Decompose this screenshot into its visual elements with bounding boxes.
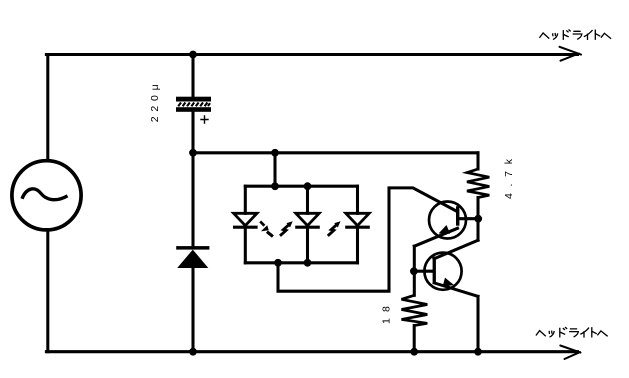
node dot LED box bottom left [274, 259, 282, 267]
light arrow bolt left (pointing lower-left) [260, 221, 273, 236]
node dot LED box top left [271, 182, 279, 190]
wire 4.7k branch corner [476, 153, 479, 169]
node dot mid rail / LED branch [271, 149, 279, 157]
wire LED box bottom [245, 261, 357, 264]
wire LED box top [245, 185, 357, 188]
resistor R1 4.7k [467, 169, 489, 198]
wire LED branch drop [273, 153, 276, 186]
node dot bottom rail / 18 ohm [410, 348, 418, 356]
wire 18 ohm resistor to bottom rail [413, 326, 416, 352]
wire left vertical lower [46, 230, 49, 352]
wire Q1 emitter diagonal [414, 228, 457, 246]
node dot LED box bottom middle [304, 259, 312, 267]
wire LED box right vertical [356, 186, 359, 263]
wire diode to bottom rail [191, 268, 194, 352]
light arrow bolt middle (pointing upper-right) [280, 221, 293, 236]
transistor Q1 [429, 202, 466, 239]
LED D3 [295, 213, 320, 227]
wire left vertical upper [46, 55, 49, 162]
node dot mid rail / capacitor [189, 149, 197, 157]
label headlight bottom (katakana) [536, 328, 607, 338]
label headlight top (katakana) [540, 30, 611, 40]
node dot bottom rail / diode [189, 348, 197, 356]
top output arrowhead [560, 47, 582, 61]
wire capacitor branch upper [191, 55, 194, 97]
wire 4.7k resistor to Q1 base node [476, 198, 479, 241]
transistor Q2 [424, 253, 461, 290]
light arrow bolt right (pointing upper-right) [328, 221, 341, 236]
wire Q2 emitter diagonal [434, 283, 478, 297]
node dot LED box top middle [304, 182, 312, 190]
wire bottom rail [46, 350, 577, 353]
wire Q1 base lead [459, 217, 479, 220]
node dot Q1 base [474, 215, 482, 223]
node dot top rail / capacitor [189, 51, 197, 59]
wire Q2 collector diagonal [434, 240, 478, 259]
resistor R2 18 [402, 295, 428, 325]
Q2 emitter arrow [443, 278, 454, 287]
wire Q1 emitter to Q2 base vertical [413, 246, 416, 295]
capacitor C1 220u [176, 97, 211, 124]
bottom output arrowhead [560, 346, 580, 360]
node dot bottom rail / Q2 emitter [474, 348, 482, 356]
capacitor plus mark [200, 115, 208, 124]
LED D4 [345, 213, 370, 227]
wire capacitor to diode [191, 112, 194, 246]
wire middle horizontal rail [193, 151, 478, 154]
wire Q2 emitter vertical to bottom rail [476, 296, 479, 351]
wire LED box middle vertical [306, 186, 309, 263]
node dot Q2 base [410, 267, 418, 275]
AC source V1 [12, 161, 81, 230]
wire Q2 base lead [414, 270, 432, 273]
Q1 emitter arrow [439, 225, 451, 234]
wire LED box left vertical [244, 186, 247, 263]
wire feedback from LED box to Q1 collector [278, 188, 457, 291]
LED D2 [233, 213, 258, 227]
wire top rail [46, 53, 577, 56]
diode D1 [176, 246, 209, 268]
